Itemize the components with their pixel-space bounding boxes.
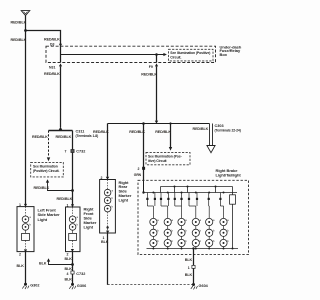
wire: branch up into illumination reference box xyxy=(46,179,73,190)
wire: drop to right rear side marker light xyxy=(107,124,109,177)
svg-text:a: a xyxy=(112,188,114,192)
taillight bottom bus xyxy=(147,248,239,250)
svg-text:RED/BLK: RED/BLK xyxy=(93,130,109,134)
junction ground branch xyxy=(71,263,74,266)
wire: branch to fuse box terminal D3 xyxy=(26,31,61,47)
svg-text:N31: N31 xyxy=(49,66,55,70)
svg-text:(Terminals 1-8): (Terminals 1-8) xyxy=(76,134,99,138)
left front side marker light xyxy=(17,203,60,257)
svg-text:RED/BLK: RED/BLK xyxy=(44,72,60,76)
svg-text:BLK: BLK xyxy=(185,258,193,262)
wire inside fuse box (vertical through) xyxy=(60,46,62,62)
svg-text:a: a xyxy=(29,215,31,219)
svg-text:b: b xyxy=(157,239,159,243)
svg-text:See Illumination (Positive): See Illumination (Positive) xyxy=(170,51,210,55)
wire: F9 to distribution node xyxy=(156,66,158,120)
svg-text:Light: Light xyxy=(119,197,129,202)
svg-text:(Positive) Circuit.: (Positive) Circuit. xyxy=(33,169,60,173)
bus junction dots xyxy=(152,192,224,194)
wire: drop to illumination reference (right) xyxy=(170,124,172,148)
right front side marker light xyxy=(66,203,97,256)
svg-text:1: 1 xyxy=(188,266,190,270)
svg-text:GRN: GRN xyxy=(134,173,142,177)
svg-text:a: a xyxy=(227,219,229,222)
bulb feed stubs with terminals xyxy=(147,193,220,207)
svg-text:2: 2 xyxy=(19,253,21,257)
see illumination (positive) circuit reference box (right) xyxy=(146,152,190,164)
junction drop to taillight assembly xyxy=(142,122,145,125)
svg-text:C303: C303 xyxy=(215,124,224,128)
svg-text:G604: G604 xyxy=(199,284,209,288)
pin N31 xyxy=(59,63,62,66)
svg-text:b: b xyxy=(227,229,229,233)
wire: distribution line xyxy=(108,123,210,125)
svg-text:F9: F9 xyxy=(149,65,153,69)
svg-text:RED/BLK: RED/BLK xyxy=(11,20,27,24)
taillight internal bus (upper) xyxy=(161,186,233,188)
connector bullet (pin 2) xyxy=(142,167,145,170)
svg-text:BLK: BLK xyxy=(101,240,109,244)
svg-text:itive) Circuit: itive) Circuit xyxy=(148,159,167,163)
svg-text:Light/Taillight: Light/Taillight xyxy=(216,173,242,178)
svg-text:Box: Box xyxy=(220,52,228,57)
svg-text:Circuit.: Circuit. xyxy=(170,55,181,59)
svg-text:b: b xyxy=(200,229,202,233)
under-dash fuse/relay box xyxy=(46,44,242,62)
svg-text:a: a xyxy=(172,219,174,222)
svg-text:(Terminals 22-24): (Terminals 22-24) xyxy=(215,129,241,133)
resistor xyxy=(230,187,236,249)
junction to illumination reference (lower) xyxy=(71,189,74,192)
svg-text:RED/BLK: RED/BLK xyxy=(57,197,73,201)
wire: N31 to connector C311 xyxy=(60,66,62,127)
svg-text:C311: C311 xyxy=(76,130,85,134)
bulb columns xyxy=(153,206,223,249)
see illumination (positive) circuit reference box (left) xyxy=(31,162,64,177)
svg-text:b: b xyxy=(112,196,114,200)
see illumination (positive) circuit reference box (in fuse box) xyxy=(169,49,214,61)
wire: C311 dashed branch to illumination reference xyxy=(48,131,50,158)
connector C732 (pin 7) xyxy=(65,150,86,154)
svg-text:Light: Light xyxy=(84,225,94,230)
svg-text:RED/BLK: RED/BLK xyxy=(34,186,50,190)
svg-text:BLK: BLK xyxy=(39,261,47,265)
wire: power feed down to left front side marker light xyxy=(25,16,27,207)
svg-text:b: b xyxy=(200,239,202,243)
svg-text:BLK: BLK xyxy=(17,264,25,268)
svg-text:4: 4 xyxy=(67,272,69,276)
svg-text:b: b xyxy=(227,239,229,243)
wire: ground branch arrow (to parking lights ground) xyxy=(47,258,73,264)
svg-text:G306: G306 xyxy=(77,284,86,288)
svg-text:BLK: BLK xyxy=(65,257,73,261)
wire inside fuse box (horizontal to illumination circuit) xyxy=(61,54,164,56)
svg-text:b: b xyxy=(213,239,215,243)
svg-text:RED/BLK: RED/BLK xyxy=(141,72,157,76)
svg-text:a: a xyxy=(200,219,202,222)
ground bus to G604 (dashed) xyxy=(108,284,193,286)
svg-text:b: b xyxy=(185,239,187,243)
right rear side marker light xyxy=(100,180,132,241)
svg-text:RED/BLK: RED/BLK xyxy=(32,135,48,139)
junction at power branch xyxy=(24,29,27,32)
svg-text:a: a xyxy=(213,219,215,222)
svg-text:b: b xyxy=(112,204,114,208)
svg-text:a: a xyxy=(157,219,159,222)
taillight internal bus (lower) xyxy=(144,192,238,194)
svg-text:C732: C732 xyxy=(76,150,85,154)
wire: taillight assembly to ground G604 xyxy=(193,249,195,284)
wire: left light to ground G302 xyxy=(25,252,27,283)
ground G604 xyxy=(191,283,209,289)
right brake light/taillight assembly box xyxy=(138,180,249,254)
svg-text:BLK: BLK xyxy=(65,267,73,271)
connector C732 (pin 4) xyxy=(67,271,86,276)
wire: right light to ground G306 xyxy=(72,252,74,284)
wire: drop to right brake light/taillight xyxy=(143,124,145,181)
svg-text:BLK: BLK xyxy=(65,278,73,282)
svg-text:G302: G302 xyxy=(30,284,39,288)
svg-text:C732: C732 xyxy=(76,272,85,276)
connector C311 bar xyxy=(49,130,99,139)
svg-text:RED/BLK: RED/BLK xyxy=(193,127,209,131)
svg-text:b: b xyxy=(185,229,187,233)
svg-text:a: a xyxy=(77,215,79,219)
ground G302 xyxy=(22,283,39,289)
svg-text:a: a xyxy=(185,219,187,222)
power feed arrow (from fuse, top of page) xyxy=(21,11,30,16)
svg-text:RED/BLK: RED/BLK xyxy=(44,38,60,42)
svg-text:Light: Light xyxy=(38,217,48,222)
wire: C311 to right front side marker light xyxy=(72,131,74,208)
svg-text:b: b xyxy=(77,223,79,227)
svg-text:RED/BLK: RED/BLK xyxy=(56,135,72,139)
wire: F9 drop inside fuse box xyxy=(156,55,158,63)
junction at F9 drop xyxy=(155,53,158,56)
stub-to-column jogs xyxy=(147,205,223,207)
svg-text:RED/BLK: RED/BLK xyxy=(155,130,171,134)
off-page arrow C303 xyxy=(207,124,241,153)
svg-text:b: b xyxy=(172,239,174,243)
svg-text:7: 7 xyxy=(65,150,67,154)
svg-text:b: b xyxy=(157,229,159,233)
wire: rear marker to ground bus xyxy=(107,233,109,285)
svg-text:See Illumination (Pos-: See Illumination (Pos- xyxy=(148,154,182,158)
pin F9 xyxy=(155,63,158,66)
svg-text:b: b xyxy=(172,229,174,233)
taillight bulbs grid xyxy=(150,218,227,246)
svg-text:RED/BLK: RED/BLK xyxy=(129,130,145,134)
svg-text:b: b xyxy=(213,229,215,233)
svg-text:2: 2 xyxy=(138,167,140,171)
connector (pin 1) xyxy=(188,265,195,270)
svg-text:b: b xyxy=(29,223,31,227)
svg-text:See Illumination: See Illumination xyxy=(33,165,58,169)
ground G306 xyxy=(69,283,86,289)
svg-text:RED/BLK: RED/BLK xyxy=(11,38,27,42)
svg-text:BLK: BLK xyxy=(185,273,193,277)
wire: entry into taillight assembly xyxy=(143,180,145,192)
